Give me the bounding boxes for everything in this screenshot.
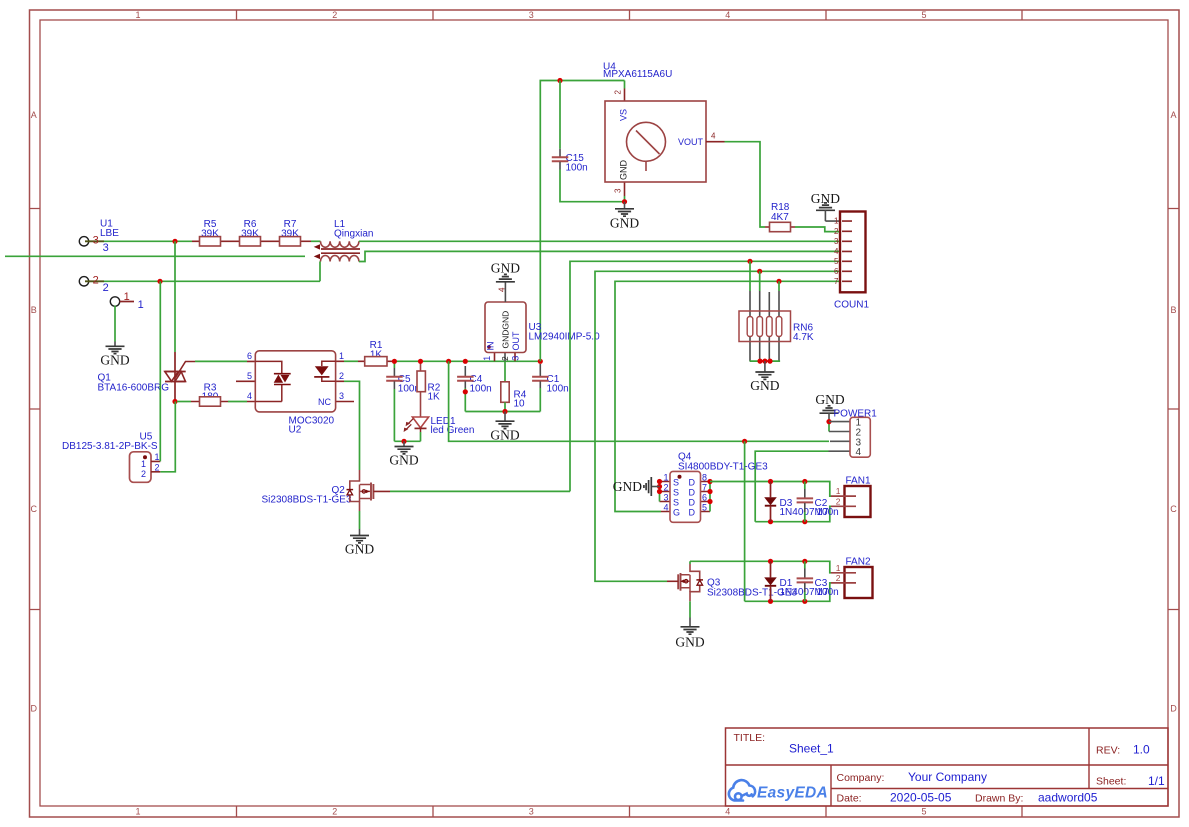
junction dot at (175,241) xyxy=(172,239,177,244)
svg-text:TITLE:: TITLE: xyxy=(734,732,766,744)
ground above U3 xyxy=(491,261,520,303)
svg-text:1: 1 xyxy=(135,807,140,817)
svg-text:4: 4 xyxy=(663,503,668,513)
wire C5/LED1 gnd rail xyxy=(394,440,420,442)
wire L1 top out to COUN1 pin3 xyxy=(359,240,841,242)
svg-text:LBE: LBE xyxy=(100,228,119,239)
svg-text:2: 2 xyxy=(103,282,109,294)
svg-text:3: 3 xyxy=(834,237,839,246)
svg-text:D: D xyxy=(689,477,696,487)
svg-text:D: D xyxy=(1170,704,1177,714)
svg-text:6: 6 xyxy=(702,493,707,503)
svg-text:4K7: 4K7 xyxy=(771,212,789,223)
svg-text:D: D xyxy=(689,507,696,517)
svg-text:3: 3 xyxy=(614,188,623,193)
svg-text:Sheet_1: Sheet_1 xyxy=(789,742,834,756)
svg-text:2: 2 xyxy=(141,469,146,479)
connector U5 xyxy=(62,432,160,483)
svg-text:1: 1 xyxy=(339,351,344,361)
junction dot C4 top xyxy=(463,359,468,364)
wire COUN1 pin5 net xyxy=(570,261,841,491)
wire L1 bottom out to COUN1 pin4 xyxy=(359,251,841,261)
svg-text:3: 3 xyxy=(529,807,534,817)
svg-text:5: 5 xyxy=(834,257,839,266)
wire C1 up to U4 rail xyxy=(540,81,624,362)
svg-text:4: 4 xyxy=(711,132,716,141)
svg-text:3: 3 xyxy=(511,356,521,361)
wire down to FAN2 rail xyxy=(744,441,746,601)
svg-text:100n: 100n xyxy=(547,383,569,394)
svg-text:1: 1 xyxy=(124,291,130,303)
junction dot rail-down xyxy=(446,359,451,364)
wire Q1 dot to R3 xyxy=(177,401,191,403)
svg-text:7: 7 xyxy=(834,277,839,286)
svg-text:2: 2 xyxy=(332,10,337,20)
svg-text:1: 1 xyxy=(834,217,839,226)
svg-text:3: 3 xyxy=(103,242,109,254)
ground below Q2 xyxy=(345,529,374,557)
svg-text:2: 2 xyxy=(614,90,623,95)
svg-text:100n: 100n xyxy=(470,383,492,394)
svg-text:4: 4 xyxy=(834,247,839,256)
svg-text:1: 1 xyxy=(836,486,841,496)
ground above POWER1 xyxy=(815,392,844,421)
junction dot gnd rail xyxy=(401,439,406,444)
optocoupler U2 MOC3020 xyxy=(236,351,354,436)
svg-text:Your Company: Your Company xyxy=(908,770,987,784)
EasyEDA logo xyxy=(729,780,755,800)
svg-text:5: 5 xyxy=(921,10,926,20)
junction dot C15 branch xyxy=(557,78,562,83)
mosfet Q4 SI4800BDY xyxy=(660,452,769,523)
resistor R1 xyxy=(344,340,392,366)
svg-text:BTA16-600BRG: BTA16-600BRG xyxy=(98,383,170,394)
svg-text:1: 1 xyxy=(836,563,841,573)
wire Q1 gate to MOC pin6 xyxy=(195,360,247,362)
svg-text:GND: GND xyxy=(613,479,642,494)
connector COUN1 xyxy=(834,212,869,311)
svg-text:3: 3 xyxy=(339,391,344,401)
svg-text:G: G xyxy=(673,507,680,517)
svg-text:REV:: REV: xyxy=(1096,745,1120,757)
svg-text:8: 8 xyxy=(702,473,707,483)
svg-text:C: C xyxy=(31,504,38,514)
capacitor C2 xyxy=(797,482,839,522)
svg-text:NC: NC xyxy=(318,397,331,407)
wire Q2 gate to vertical x=570 xyxy=(390,490,570,492)
svg-text:3: 3 xyxy=(529,10,534,20)
wire Q4 drain tie xyxy=(709,482,711,512)
sensor U4 MPXA6115A6U xyxy=(603,62,725,202)
svg-text:10: 10 xyxy=(514,399,526,410)
wire Q4 source tie xyxy=(659,482,661,502)
junction dot C4 lead xyxy=(463,389,468,394)
junction dot RN6 b xyxy=(757,269,762,274)
svg-text:A: A xyxy=(1170,110,1176,120)
wire gnd rail under U3 xyxy=(465,411,540,413)
capacitor C5 xyxy=(386,361,420,441)
capacitor C4 xyxy=(457,366,492,412)
resistor R4 xyxy=(501,361,527,411)
svg-text:GND: GND xyxy=(750,378,779,393)
wire FAN2 top rail xyxy=(690,561,831,573)
svg-text:3: 3 xyxy=(93,235,99,247)
svg-text:5: 5 xyxy=(921,807,926,817)
junction dot main rail to FAN2 xyxy=(742,439,747,444)
ground below Q3 xyxy=(675,618,704,650)
svg-text:Sheet:: Sheet: xyxy=(1096,776,1126,788)
svg-text:Drawn By:: Drawn By: xyxy=(975,793,1023,805)
wire R3 to MOC pin4 xyxy=(228,401,247,403)
svg-text:S: S xyxy=(673,497,679,507)
junction dots Q4 right xyxy=(707,479,712,484)
svg-text:LM2940IMP-5.0: LM2940IMP-5.0 xyxy=(529,332,601,343)
resistor R3 xyxy=(191,382,228,406)
wire Q1 bottom to U5.2 xyxy=(160,402,175,472)
wire main 5V rail xyxy=(392,360,540,362)
wire POWER1 pin4 to FAN1 bottom rail xyxy=(755,451,828,522)
junction dot under R4 xyxy=(502,409,507,414)
inner led of MOC xyxy=(322,361,336,381)
mosfet Q2 xyxy=(262,470,391,511)
wire MOC pin2 to Q2 drain xyxy=(344,381,360,470)
TITLE BLOCK xyxy=(726,728,1169,806)
svg-text:2: 2 xyxy=(332,807,337,817)
svg-text:B: B xyxy=(1170,305,1176,315)
svg-text:MPXA6115A6U: MPXA6115A6U xyxy=(603,69,672,80)
svg-text:1: 1 xyxy=(155,452,160,462)
ground below R4 xyxy=(490,412,519,443)
resistor R5 xyxy=(192,219,240,246)
resistor R6 xyxy=(240,219,280,246)
svg-text:D: D xyxy=(689,487,696,497)
svg-text:2020-05-05: 2020-05-05 xyxy=(890,791,952,805)
wire 5V rail down and right to POWER1 xyxy=(449,361,829,441)
svg-text:A: A xyxy=(31,110,37,120)
LED1 xyxy=(404,416,475,441)
wire Q3 source to ground xyxy=(689,601,691,617)
svg-text:1: 1 xyxy=(663,473,668,483)
wire U5.1 up to net at y=281 xyxy=(159,281,161,461)
svg-text:6: 6 xyxy=(834,267,839,276)
svg-text:Date:: Date: xyxy=(837,793,862,805)
svg-text:2: 2 xyxy=(155,463,160,473)
capacitor C15 xyxy=(552,81,625,202)
wire Q2 source to ground xyxy=(359,511,361,529)
U1 pin 3 xyxy=(79,235,108,254)
svg-text:1/1: 1/1 xyxy=(1148,774,1165,788)
svg-text:100n: 100n xyxy=(817,587,839,598)
junction dot RN6 d xyxy=(776,279,781,284)
svg-text:5: 5 xyxy=(702,503,707,513)
ground below U1 pin1 xyxy=(100,342,129,368)
svg-text:4: 4 xyxy=(725,10,730,20)
wire R7 to L1 xyxy=(311,240,321,242)
svg-text:1: 1 xyxy=(135,10,140,20)
svg-text:S: S xyxy=(673,477,679,487)
svg-text:Si2308BDS-T1-GE3: Si2308BDS-T1-GE3 xyxy=(262,495,352,506)
wire left stub net at y=256 xyxy=(5,255,305,257)
wire net A (U1.3 to R5) xyxy=(104,240,192,242)
connector FAN2 xyxy=(831,557,873,599)
connector FAN1 xyxy=(831,476,871,518)
junction dot at Q1 bottom xyxy=(172,399,177,404)
svg-text:D: D xyxy=(689,497,696,507)
diode D1 xyxy=(764,561,829,601)
capacitor C3 xyxy=(797,561,839,601)
svg-text:2: 2 xyxy=(663,483,668,493)
wire FAN1 bottom rail xyxy=(755,506,831,521)
svg-text:S: S xyxy=(673,487,679,497)
svg-text:GND: GND xyxy=(490,427,519,442)
svg-text:5: 5 xyxy=(247,371,252,381)
svg-text:aadword05: aadword05 xyxy=(1038,791,1098,805)
svg-text:4: 4 xyxy=(725,807,730,817)
svg-text:Company:: Company: xyxy=(837,772,885,784)
svg-text:GND: GND xyxy=(491,261,520,276)
svg-text:1: 1 xyxy=(482,356,492,361)
ground below LED1 rail xyxy=(389,441,418,467)
junction dots FAN1 rails xyxy=(768,479,773,484)
junction dot U4 pin3 xyxy=(622,199,627,204)
svg-text:VS: VS xyxy=(619,109,629,121)
svg-text:Qingxian: Qingxian xyxy=(334,229,373,240)
svg-text:100n: 100n xyxy=(566,162,588,173)
junction dots RN6 bottom xyxy=(757,359,762,364)
svg-text:7: 7 xyxy=(702,483,707,493)
svg-text:GND: GND xyxy=(345,542,374,557)
diode D3 xyxy=(764,482,829,522)
wire FAN1 top rail xyxy=(710,482,831,497)
ground below RN6 xyxy=(750,361,779,393)
junction dots FAN2 rails xyxy=(768,559,773,564)
svg-text:1: 1 xyxy=(141,459,146,469)
ground at COUN1 pin1 xyxy=(811,191,841,221)
junction dots Q4 left xyxy=(657,479,662,484)
wire U4 VOUT to R18 xyxy=(725,142,766,227)
junction dot R2 top xyxy=(418,359,423,364)
svg-text:1K: 1K xyxy=(428,392,441,403)
U1 pin 2 xyxy=(79,275,108,294)
wire FAN2 bottom rail xyxy=(745,583,831,601)
svg-text:2: 2 xyxy=(836,573,841,583)
regulator U3 LM2940 xyxy=(482,287,600,361)
svg-text:GND: GND xyxy=(619,160,629,181)
inner triac of MOC xyxy=(255,361,281,401)
svg-text:2: 2 xyxy=(93,275,99,287)
svg-text:GNDGND: GNDGND xyxy=(500,311,510,349)
svg-text:100n: 100n xyxy=(817,507,839,518)
svg-text:3: 3 xyxy=(663,493,668,503)
svg-text:B: B xyxy=(31,305,37,315)
connector POWER1 xyxy=(829,409,878,459)
capacitor C1 xyxy=(532,364,569,412)
svg-text:GND: GND xyxy=(610,216,639,231)
svg-text:OUT: OUT xyxy=(511,331,521,351)
resistor network RN6 xyxy=(739,261,814,361)
svg-text:D: D xyxy=(31,704,38,714)
svg-text:GND: GND xyxy=(100,353,129,368)
svg-text:4.7K: 4.7K xyxy=(793,332,814,343)
ground below U4 xyxy=(610,202,639,231)
inductor L1 xyxy=(314,219,374,262)
svg-text:4: 4 xyxy=(247,391,252,401)
resistor R2 xyxy=(417,361,441,417)
junction dot C1 top xyxy=(538,359,543,364)
U1 pin 1 xyxy=(110,291,143,311)
resistor R18 xyxy=(765,202,795,232)
triac Q1 xyxy=(98,241,196,401)
svg-text:GND: GND xyxy=(389,453,418,468)
junction dot RN6 a xyxy=(747,259,752,264)
ground left of Q4 xyxy=(613,477,660,496)
svg-text:COUN1: COUN1 xyxy=(834,300,869,311)
mosfet Q3 xyxy=(667,561,797,601)
resistor R7 xyxy=(280,219,312,246)
svg-text:GND: GND xyxy=(675,635,704,650)
svg-text:2: 2 xyxy=(836,496,841,506)
svg-text:2: 2 xyxy=(834,227,839,236)
svg-text:IN: IN xyxy=(485,342,495,351)
svg-text:led Green: led Green xyxy=(431,425,475,436)
svg-text:6: 6 xyxy=(247,351,252,361)
wire COUN1 pin6 net xyxy=(595,271,841,581)
svg-text:U2: U2 xyxy=(289,425,302,436)
wire R18 to COUN1 pin2 xyxy=(795,227,841,232)
svg-text:2: 2 xyxy=(339,371,344,381)
wire U1.2 horizontal xyxy=(104,262,320,282)
wire U1 pin1 to ground xyxy=(114,306,116,342)
svg-text:VOUT: VOUT xyxy=(678,137,704,147)
svg-text:DB125-3.81-2P-BK-S: DB125-3.81-2P-BK-S xyxy=(62,441,158,452)
wire POWER1 gnd pins xyxy=(828,422,830,432)
wire COUN1 pin7 net xyxy=(615,281,841,511)
junction dot C5 top xyxy=(392,359,397,364)
svg-text:1.0: 1.0 xyxy=(1133,743,1150,757)
svg-text:4: 4 xyxy=(856,447,862,458)
junction dot at (160,281) xyxy=(157,279,162,284)
svg-text:2: 2 xyxy=(501,356,510,361)
junction dot POWER1 pin1 xyxy=(826,419,831,424)
svg-text:1: 1 xyxy=(138,299,144,311)
svg-text:EasyEDA: EasyEDA xyxy=(757,785,828,802)
svg-text:C: C xyxy=(1170,504,1177,514)
